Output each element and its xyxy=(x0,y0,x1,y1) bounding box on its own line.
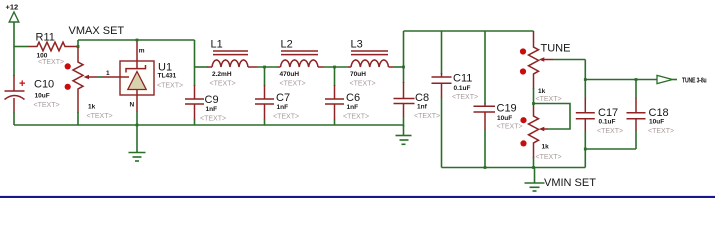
pin K label (rotated) xyxy=(139,48,145,55)
wire C17/C18 bottoms xyxy=(585,148,636,150)
node junction C7 top xyxy=(263,66,266,69)
op-amp U1 TL431 xyxy=(120,41,183,125)
svg-text:1nF: 1nF xyxy=(206,106,218,113)
svg-text:VMAX SET: VMAX SET xyxy=(69,25,125,37)
capacitor C6 1nF xyxy=(325,67,369,125)
svg-text:TUNE: TUNE xyxy=(541,43,571,55)
node junction C19 bottom xyxy=(484,166,487,169)
inductor L1 2.2mH xyxy=(208,39,258,88)
svg-text:N: N xyxy=(130,102,135,109)
wire TUNE wiper down xyxy=(584,60,586,80)
svg-text:<TEXT>: <TEXT> xyxy=(87,113,113,120)
svg-text:C19: C19 xyxy=(497,103,517,115)
svg-text:<TEXT>: <TEXT> xyxy=(280,81,306,88)
svg-text:10uF: 10uF xyxy=(35,93,50,100)
svg-text:+12: +12 xyxy=(6,3,19,12)
capacitor C7 1nF xyxy=(255,67,299,125)
svg-text:<TEXT>: <TEXT> xyxy=(38,59,64,66)
svg-text:<TEXT>: <TEXT> xyxy=(414,113,440,120)
svg-text:0.1uF: 0.1uF xyxy=(599,119,616,126)
svg-text:70uH: 70uH xyxy=(350,71,366,78)
potentiometer VMAX SET 1k xyxy=(65,47,120,125)
node junction U1 top xyxy=(136,39,139,42)
wire L3 to node xyxy=(393,66,404,68)
svg-text:L3: L3 xyxy=(351,39,363,51)
capacitor C9 1nF xyxy=(185,67,226,125)
svg-text:C9: C9 xyxy=(205,94,219,106)
svg-text:0.1uF: 0.1uF xyxy=(454,85,471,92)
capacitor C19 10uF xyxy=(474,31,523,168)
node VMAX SET label xyxy=(69,25,125,37)
wire C17 column down to VMIN rail xyxy=(584,149,586,168)
svg-text:470uH: 470uH xyxy=(280,71,300,78)
ground under C8 xyxy=(396,125,412,144)
resistor R11 xyxy=(29,32,79,67)
svg-text:C6: C6 xyxy=(346,92,360,104)
svg-text:<TEXT>: <TEXT> xyxy=(34,102,60,109)
capacitor C10 (polarized) xyxy=(5,47,60,126)
wire filter node 1 xyxy=(195,66,209,68)
svg-text:1nF: 1nF xyxy=(347,104,359,111)
svg-text:C10: C10 xyxy=(34,79,54,91)
bottom ground rail left xyxy=(14,124,404,126)
svg-text:1k: 1k xyxy=(88,104,96,111)
svg-text:10uF: 10uF xyxy=(649,119,664,126)
ground VMIN SET xyxy=(525,168,545,192)
wire L1 to L2 xyxy=(258,66,278,68)
svg-text:C11: C11 xyxy=(453,73,472,85)
svg-text:<TEXT>: <TEXT> xyxy=(350,81,376,88)
wire +12 to R11 xyxy=(14,46,29,48)
node +12 power label xyxy=(6,3,19,12)
svg-text:10uF: 10uF xyxy=(497,115,512,122)
potentiometer TUNE 1k xyxy=(520,31,585,104)
capacitor C8 1nf xyxy=(394,67,441,127)
svg-text:C17: C17 xyxy=(598,107,618,119)
wire node up to top-right rail xyxy=(403,31,405,67)
node junction C18 top xyxy=(635,78,638,81)
svg-text:<TEXT>: <TEXT> xyxy=(210,81,236,88)
potentiometer VMIN 1k xyxy=(520,104,561,168)
node junction U1 bottom rail xyxy=(136,124,139,127)
svg-text:+: + xyxy=(19,78,25,90)
svg-text:<TEXT>: <TEXT> xyxy=(536,154,562,161)
svg-text:1nF: 1nF xyxy=(277,104,289,111)
svg-text:<TEXT>: <TEXT> xyxy=(200,116,226,123)
node junction filter output xyxy=(402,66,405,69)
ground under U1 xyxy=(129,125,146,161)
svg-text:C7: C7 xyxy=(276,92,290,104)
svg-text:<TEXT>: <TEXT> xyxy=(536,96,562,103)
svg-text:<TEXT>: <TEXT> xyxy=(157,83,183,90)
node junction VMIN pot bottom xyxy=(532,166,535,169)
svg-text:<TEXT>: <TEXT> xyxy=(452,94,478,101)
node junction R11/pot xyxy=(77,45,80,48)
svg-text:<TEXT>: <TEXT> xyxy=(497,124,523,131)
inductor L3 70uH xyxy=(348,39,393,88)
svg-text:<TEXT>: <TEXT> xyxy=(273,114,299,121)
node VMIN SET label xyxy=(544,177,596,189)
node junction C17 bottom xyxy=(584,148,587,151)
svg-text:L1: L1 xyxy=(211,39,223,51)
capacitor C11 0.1uF xyxy=(432,31,479,168)
svg-text:L2: L2 xyxy=(281,39,293,51)
wire output node xyxy=(585,79,657,81)
svg-text:1: 1 xyxy=(106,70,110,77)
wire VMAX top rail xyxy=(78,39,195,41)
svg-text:VMIN SET: VMIN SET xyxy=(544,177,596,189)
power symbol +12 arrow xyxy=(9,12,19,47)
svg-text:1nf: 1nf xyxy=(417,104,428,111)
capacitor C18 10uF xyxy=(627,80,675,150)
wire wiper loop VMIN pot xyxy=(534,104,571,130)
svg-text:<TEXT>: <TEXT> xyxy=(343,114,369,121)
svg-text:C8: C8 xyxy=(415,92,429,104)
terminal TUNE 3-8u output arrow xyxy=(657,75,707,85)
bottom-right rail xyxy=(442,167,586,169)
svg-text:2.2mH: 2.2mH xyxy=(212,71,232,78)
node junction C6 top xyxy=(333,66,336,69)
inductor L2 470uH xyxy=(278,39,324,88)
svg-text:<TEXT>: <TEXT> xyxy=(648,128,674,135)
svg-text:<TEXT>: <TEXT> xyxy=(597,128,623,135)
svg-text:TUNE 3-8u: TUNE 3-8u xyxy=(682,77,707,85)
wire VMAX rail down to filter input xyxy=(194,40,196,67)
pin N label xyxy=(130,102,135,109)
svg-text:1k: 1k xyxy=(542,144,550,151)
svg-text:m: m xyxy=(139,48,145,55)
svg-text:C18: C18 xyxy=(649,107,669,119)
pin 1 label xyxy=(106,70,110,77)
svg-text:1k: 1k xyxy=(538,88,546,95)
wire R11 node up to VMAX rail xyxy=(77,40,79,47)
wire L2 to L3 xyxy=(324,66,349,68)
top-right rail xyxy=(404,30,534,32)
svg-text:TL431: TL431 xyxy=(158,73,177,80)
decorative bottom border xyxy=(0,196,715,198)
capacitor C17 0.1uF xyxy=(576,80,623,150)
node junction output/C17 xyxy=(584,78,587,81)
node junction pots xyxy=(532,102,535,105)
svg-text:R11: R11 xyxy=(36,32,55,44)
